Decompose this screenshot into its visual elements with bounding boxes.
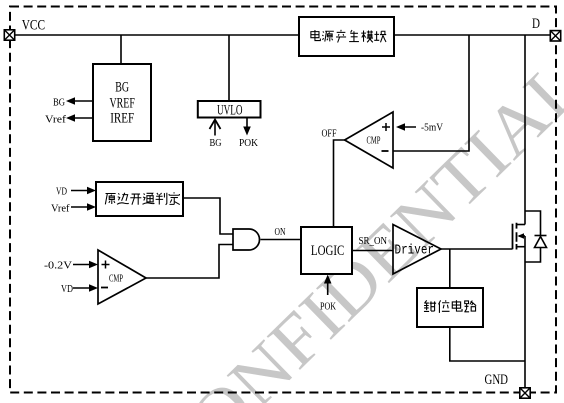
svg-text:-5mV: -5mV: [421, 123, 443, 134]
svg-text:BG: BG: [115, 80, 129, 96]
svg-text:UVLO: UVLO: [217, 102, 243, 118]
svg-text:VD: VD: [56, 187, 67, 198]
svg-text:OFF: OFF: [322, 129, 337, 140]
svg-text:POK: POK: [239, 138, 258, 149]
arrowhead POK up (LOGIC): [324, 275, 332, 284]
wire CMP1 output OFF to LOGIC top: [334, 140, 345, 227]
arrowhead CMP2 plus: [89, 261, 98, 269]
svg-text:GND: GND: [485, 372, 509, 388]
svg-text:Driver: Driver: [395, 244, 435, 259]
wire -5mV annotation arrow line: [399, 126, 416, 128]
wire Vref out arrow line: [70, 117, 94, 119]
op-amp CMP2 (right pointing comparator): [98, 250, 146, 304]
buffer Driver triangle: [393, 225, 441, 275]
svg-text:BG: BG: [210, 138, 222, 149]
wire BG up arrow into UVLO: [214, 120, 216, 136]
wire VD arrow into block: [71, 190, 92, 192]
AND gate: [233, 229, 260, 250]
svg-text:Vref: Vref: [45, 115, 67, 126]
svg-text:ON: ON: [275, 227, 286, 238]
diode D1 body diode: [535, 236, 547, 248]
wire top rail right: [394, 34, 551, 36]
arrowhead Vref left: [66, 114, 75, 122]
block UVLO: [198, 101, 261, 118]
pad GND: [520, 388, 530, 398]
arrowhead BG left: [66, 97, 75, 105]
wire MOSFET source down to GND pad: [524, 236, 526, 388]
wire Vref arrow into block: [71, 206, 92, 208]
arrowhead VD right: [87, 187, 96, 195]
arrowhead CMP2 minus: [89, 284, 98, 292]
transistor body arrow: [517, 233, 524, 239]
arrowhead BG up open chevron (UVLO): [210, 120, 221, 130]
svg-text:POK: POK: [320, 302, 336, 313]
svg-text:IREF: IREF: [110, 111, 134, 127]
block LOGIC: [301, 227, 352, 274]
svg-text:VD: VD: [61, 284, 73, 295]
wire diode branch: [525, 211, 541, 262]
arrowhead POK down (UVLO): [243, 127, 251, 136]
wire CMP2 minus arrow: [73, 287, 94, 289]
transistor M1 power MOSFET: [513, 223, 526, 250]
wire SR_ON LOGIC to Driver: [352, 250, 393, 252]
wire AND output ON to LOGIC: [261, 239, 302, 241]
wire rail to UVLO: [228, 35, 230, 101]
svg-text:VREF: VREF: [110, 96, 135, 112]
op-amp CMP1 (left pointing comparator): [345, 112, 393, 168]
pad VCC: [4, 30, 14, 40]
block primary turn-on detect 原边开通判定: [96, 182, 183, 216]
wire top rail left: [10, 34, 300, 36]
wire driver output down to clamp: [449, 249, 451, 288]
wire POK down arrow from UVLO: [246, 118, 248, 130]
svg-text:VCC: VCC: [22, 17, 45, 33]
wire VCC rail to BG block: [120, 35, 122, 64]
svg-text:D: D: [532, 16, 540, 32]
arrowhead -5mV left: [396, 123, 405, 131]
block BG VREF IREF: [93, 64, 151, 141]
block power supply module 电源产生模块: [299, 17, 394, 56]
wire rail down to MOSFET drain: [524, 35, 526, 225]
wire rail down to CMP1 minus: [393, 35, 469, 151]
wire clamp bottom to source line: [450, 327, 525, 361]
svg-text:Vref: Vref: [51, 204, 70, 215]
svg-text:LOGIC: LOGIC: [311, 243, 344, 259]
svg-text:SR_ON: SR_ON: [359, 236, 388, 247]
arrowheads: [66, 97, 405, 292]
wire block output to AND input A: [183, 198, 233, 234]
pad D: [550, 31, 560, 41]
svg-text:CMP: CMP: [367, 136, 381, 147]
arrowhead Vref right: [87, 203, 96, 211]
wire CMP2 output to AND input B: [146, 245, 233, 279]
watermark CONFIDENTIAL: [136, 43, 564, 403]
wire BG out arrow line: [70, 100, 94, 102]
svg-text:-0.2V: -0.2V: [44, 261, 72, 272]
block clamp circuit 钳位电路: [417, 288, 483, 327]
wire CMP2 plus arrow: [73, 264, 94, 266]
wire Driver output to MOSFET gate: [441, 248, 513, 250]
wire POK up arrow into LOGIC: [327, 278, 329, 295]
svg-text:BG: BG: [53, 98, 65, 109]
svg-text:CMP: CMP: [109, 274, 123, 285]
